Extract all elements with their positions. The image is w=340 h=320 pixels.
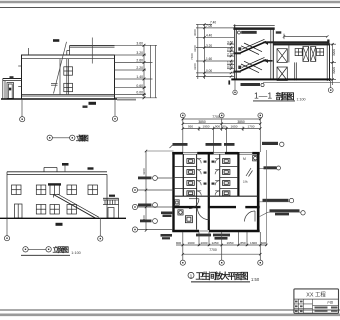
elevation-2 parapet bbox=[7, 172, 107, 175]
section left rotated dim text bbox=[190, 29, 197, 70]
svg-text:0.00: 0.00 bbox=[136, 91, 143, 95]
plan right extension vertical bbox=[265, 150, 267, 246]
svg-text:3200: 3200 bbox=[332, 49, 336, 56]
section interior wall upper bbox=[288, 45, 290, 62]
elevation-1 ground extension gray bbox=[117, 99, 136, 101]
plan right toilets bbox=[223, 159, 230, 196]
plan left axis leaders bbox=[138, 190, 174, 230]
svg-text:1:100: 1:100 bbox=[71, 251, 81, 255]
plan right-stall wall bbox=[237, 152, 239, 196]
plan corner basin top-right bbox=[253, 156, 258, 161]
plan axis circle bottom 2 bbox=[219, 260, 224, 265]
plan annotation top-mid bbox=[206, 143, 222, 146]
section roof level mark bbox=[276, 31, 282, 33]
plan axis circle top 3 bbox=[258, 113, 263, 118]
plan corridor marks bbox=[204, 161, 215, 185]
elevation-2 annex door bbox=[108, 208, 114, 219]
section ground extension line right bbox=[263, 82, 340, 84]
section roof parapet right bbox=[327, 40, 329, 44]
section footing mark bbox=[228, 80, 230, 84]
svg-text:卫生间放大平面图: 卫生间放大平面图 bbox=[196, 271, 249, 281]
svg-text:1: 1 bbox=[190, 273, 193, 279]
plan left annotation circle 3 bbox=[153, 219, 158, 224]
elevation-2 apron label bbox=[56, 223, 63, 226]
svg-text:1950: 1950 bbox=[203, 125, 210, 129]
svg-text:1250: 1250 bbox=[212, 241, 219, 245]
elevation-1 window upper bbox=[64, 67, 73, 75]
elevation-1 axis circle A bbox=[20, 117, 25, 122]
titleblock right small rows bbox=[315, 307, 338, 312]
plan big room slope marks bbox=[246, 168, 253, 177]
plan top extension verticals bbox=[183, 118, 260, 152]
section right dim stack vertical bbox=[332, 44, 334, 86]
section upper door-X 2 bbox=[311, 47, 316, 62]
elevation-1 window lower bbox=[64, 83, 73, 91]
plan title circled number bbox=[188, 272, 194, 278]
plan right annotation 2 leader bbox=[260, 212, 268, 216]
section axis line A bbox=[234, 80, 236, 90]
svg-text:2.80: 2.80 bbox=[227, 47, 233, 51]
svg-text:1650: 1650 bbox=[231, 125, 238, 129]
elevation-1 level-mark label bbox=[53, 39, 59, 42]
elevation-1 drainpipe bbox=[67, 59, 69, 95]
svg-text:2.20: 2.20 bbox=[227, 52, 233, 56]
plan middle partition wall bbox=[208, 152, 210, 230]
plan top windows (double line) bbox=[183, 152, 252, 154]
plan annotation right-wall tile leader bbox=[258, 168, 263, 170]
svg-text:0.00: 0.00 bbox=[206, 69, 212, 73]
section left dimension verticals bbox=[198, 24, 205, 79]
elevation-2 penthouse bump bbox=[44, 168, 57, 172]
plan top dim line mid bbox=[183, 123, 260, 125]
plan right annotation 1 bbox=[263, 199, 289, 202]
elevation-2 window row2 w4 bbox=[67, 205, 77, 215]
plan annotation right-wall tile bbox=[264, 166, 277, 169]
plan left annotation circle 1 bbox=[153, 176, 158, 181]
plan left rotated dim texts bbox=[142, 168, 146, 222]
plan right annotation 2 bbox=[270, 209, 300, 215]
elevation-1 dimension texts bbox=[136, 42, 143, 95]
plan axis circle bottom 1 bbox=[180, 260, 185, 265]
elevation-2 axis line A bbox=[6, 218, 8, 235]
titleblock cell marks bbox=[295, 301, 303, 312]
section axis circle B bbox=[328, 88, 333, 93]
elevation-1 penthouse roof bbox=[67, 46, 115, 55]
border frame bottom thin bbox=[0, 309, 340, 311]
plan left axis circle 1 bbox=[132, 187, 137, 192]
section lower mid landing bbox=[233, 71, 240, 73]
section main roof slab bbox=[273, 43, 329, 45]
section ceiling annotation circle bbox=[238, 31, 241, 34]
svg-text:1.40: 1.40 bbox=[136, 75, 143, 79]
plan right stall dividers bbox=[220, 167, 238, 189]
elevation-1 apron label bbox=[89, 102, 97, 105]
section ceiling annotation bbox=[241, 31, 257, 34]
plan left stall doors bbox=[197, 159, 202, 196]
svg-text:7700: 7700 bbox=[212, 115, 220, 119]
plan left stall dividers bbox=[175, 167, 197, 189]
svg-text:2.60: 2.60 bbox=[136, 59, 143, 63]
svg-text:1.60: 1.60 bbox=[206, 57, 212, 61]
svg-text:3.20: 3.20 bbox=[206, 44, 212, 48]
plan left axis circle 3 bbox=[132, 227, 137, 232]
elevation-2 title underline bbox=[21, 254, 70, 256]
plan bottom extension verticals bbox=[183, 232, 260, 260]
elevation-1 door canopy bbox=[51, 84, 58, 86]
elevation-2 window row1 w5 bbox=[88, 185, 98, 195]
plan zone-B door arc bbox=[198, 208, 210, 220]
section right wall bbox=[327, 43, 329, 81]
plan stall front wall right room bbox=[219, 155, 221, 197]
svg-text:3200: 3200 bbox=[193, 63, 197, 70]
border frame bottom thick bbox=[0, 313, 340, 316]
section stair tower left wall bbox=[235, 24, 237, 79]
border frame top thick bbox=[0, 1, 340, 4]
plan top dim texts detail bbox=[188, 125, 255, 129]
elevation-1 small label bbox=[83, 106, 88, 108]
titleblock row lines bbox=[294, 304, 339, 309]
section left extension lines bbox=[196, 24, 234, 76]
section roof dim line bbox=[283, 34, 329, 40]
elevation-1 axis line A bbox=[21, 99, 23, 117]
elevation-2 axis line B bbox=[99, 218, 101, 236]
plan annotation top-mid2 bbox=[224, 143, 235, 146]
section upper mid landing bbox=[233, 52, 240, 54]
elevation-2 roof leader bbox=[64, 166, 66, 172]
plan axis circle bottom 3 bbox=[258, 260, 263, 265]
plan left wall bbox=[172, 152, 174, 232]
section lower flight bbox=[240, 57, 266, 72]
plan axis circle top 1 bbox=[180, 113, 185, 118]
svg-text:立面图: 立面图 bbox=[53, 245, 70, 254]
plan stall front wall left room bbox=[196, 155, 198, 197]
plan top dim line detail bbox=[183, 128, 260, 130]
plan bottom-left outside blob bbox=[161, 234, 173, 239]
elevation-2 axis circle B bbox=[98, 236, 103, 241]
plan right annotation 2 circle bbox=[301, 211, 305, 215]
section annotation circle bbox=[261, 83, 264, 86]
svg-text:M: M bbox=[243, 157, 246, 161]
titleblock project row divider bbox=[294, 298, 339, 300]
section right extension lines bbox=[330, 44, 337, 79]
section riser dim marks bbox=[238, 47, 241, 69]
section tower roof slab bbox=[233, 27, 274, 30]
plan top dim ticks bbox=[182, 118, 262, 130]
svg-text:1650: 1650 bbox=[227, 241, 234, 245]
svg-text:XX 工程: XX 工程 bbox=[306, 291, 326, 299]
svg-text:1300: 1300 bbox=[250, 241, 257, 245]
elevation-1 dimension extension lines bbox=[115, 45, 158, 98]
plan axis circle top 2 bbox=[219, 113, 224, 118]
elevation-2 title bbox=[23, 247, 52, 252]
section left level texts bbox=[206, 21, 233, 74]
section axis line B bbox=[330, 81, 332, 88]
elevation-2 window row1 w4 bbox=[67, 185, 77, 195]
plan right annotation 1 circle bbox=[289, 198, 293, 202]
elevation-2 ground line bbox=[0, 217, 126, 219]
section lower flight cut triangle bbox=[263, 60, 268, 64]
plan left annotation 2 bbox=[138, 204, 152, 207]
elevation-2 right annex railing bbox=[103, 198, 119, 218]
section upper flight bbox=[240, 39, 266, 54]
plan left toilets bbox=[187, 159, 194, 196]
section upper door bbox=[277, 49, 287, 63]
elevation-2 window row1 w1 bbox=[12, 185, 22, 195]
elevation-1 roof vent pipe bbox=[28, 48, 30, 55]
svg-text:4.40: 4.40 bbox=[206, 34, 212, 38]
plan left axis circle 2 bbox=[132, 204, 137, 209]
svg-text:7.00: 7.00 bbox=[206, 24, 212, 28]
elevation-2 window row1 w2 bbox=[36, 185, 46, 195]
section upper window 2 bbox=[317, 49, 324, 56]
elevation-2 roof level label bbox=[62, 163, 69, 166]
svg-text:3850: 3850 bbox=[198, 120, 206, 124]
section tower parapet line bbox=[233, 25, 274, 27]
svg-text:950: 950 bbox=[188, 125, 193, 129]
plan lower basin circle bbox=[178, 210, 183, 215]
svg-text:7700: 7700 bbox=[209, 248, 217, 252]
section ground slab bbox=[231, 78, 331, 80]
plan top wall band bbox=[172, 152, 259, 155]
svg-text:1—1: 1—1 bbox=[254, 91, 272, 101]
elevation-2 window row2 w2 bbox=[36, 205, 46, 215]
elevation-1 wall face line bbox=[59, 59, 61, 95]
svg-text:4200: 4200 bbox=[142, 168, 146, 175]
svg-text:3000: 3000 bbox=[193, 29, 197, 36]
elevation-1 title bbox=[47, 135, 75, 140]
plan zone-A door arc bbox=[189, 199, 199, 209]
section left dimension ticks bbox=[203, 23, 232, 77]
section right rotated texts bbox=[332, 49, 336, 74]
svg-text:3200: 3200 bbox=[193, 45, 197, 52]
plan mid wall W2 bbox=[172, 206, 259, 208]
elevation-2 wall outline bbox=[7, 172, 107, 218]
section outdoor-level annotation bbox=[241, 83, 261, 86]
plan bottom opening threshold bbox=[199, 230, 209, 232]
elevation-2 parapet label bbox=[88, 167, 94, 169]
section title underline bbox=[253, 100, 295, 102]
plan lower small partition bbox=[196, 196, 198, 229]
plan right room door arc bbox=[245, 211, 256, 222]
elevation-1 leader diagonal bbox=[54, 42, 67, 94]
plan bottom wall bbox=[172, 230, 259, 233]
plan bottom dim ticks bbox=[182, 244, 268, 246]
svg-text:户厕: 户厕 bbox=[327, 299, 333, 304]
svg-text:1%: 1% bbox=[243, 180, 248, 184]
elevation-1 leader vertical bbox=[91, 38, 93, 64]
titleblock verticals bbox=[299, 299, 313, 313]
svg-text:1600: 1600 bbox=[188, 241, 195, 245]
plan bottom annotation 2 bbox=[213, 234, 230, 240]
plan stall-zone bottom wall W1 bbox=[175, 195, 258, 197]
elevation-1 annex roof vent bbox=[10, 76, 14, 78]
section upper door-X 1 bbox=[303, 47, 309, 62]
plan right wall bbox=[257, 152, 260, 232]
section upper window 1 bbox=[295, 49, 302, 56]
plan zone-A fixture bbox=[175, 200, 180, 205]
plan annotation top-right leader circle bbox=[280, 142, 284, 146]
svg-text:3200: 3200 bbox=[332, 67, 336, 74]
plan top dim texts mid bbox=[198, 120, 245, 124]
section axis circle A bbox=[233, 90, 237, 94]
elevation-1 wall ledge marks bbox=[18, 66, 21, 86]
plan left annotation 1 bbox=[138, 177, 152, 180]
plan left dim vertical bbox=[145, 151, 147, 230]
elevation-2 window row2 w3 bbox=[50, 205, 59, 215]
plan annotation top-right bbox=[262, 142, 278, 145]
plan bottom dim texts bbox=[176, 241, 266, 245]
svg-text:900: 900 bbox=[215, 125, 220, 129]
plan lower squat pan bbox=[185, 216, 192, 223]
elevation-2 balcony slab bbox=[48, 183, 61, 185]
plan left leader 1 bbox=[157, 177, 174, 179]
elevation-1 dimension vertical lines bbox=[144, 45, 156, 98]
section floor1 slab right bbox=[265, 60, 273, 62]
plan left annotation circle 2 bbox=[153, 203, 158, 208]
svg-text:3850: 3850 bbox=[237, 120, 245, 124]
plan right annotation 1 leader bbox=[260, 201, 290, 203]
svg-text:0.60: 0.60 bbox=[227, 65, 233, 69]
plan right stall doors bbox=[215, 159, 220, 196]
plan bottom annotation 1 bbox=[196, 234, 211, 237]
svg-text:1000: 1000 bbox=[201, 241, 208, 245]
elevation-2 balcony door bbox=[50, 184, 59, 195]
plan left outside annotation bbox=[161, 212, 173, 218]
plan stall back wall left room bbox=[182, 155, 184, 197]
svg-text:1:50: 1:50 bbox=[251, 277, 260, 282]
plan annotation right-wall tile circle bbox=[277, 166, 281, 170]
svg-text:600: 600 bbox=[261, 241, 266, 245]
section interior wall lower bbox=[295, 62, 297, 80]
plan annotation top-left leader bbox=[170, 145, 173, 148]
elevation-2 axis circle A bbox=[4, 236, 9, 241]
svg-text:3.20: 3.20 bbox=[136, 51, 143, 55]
svg-text:0.60: 0.60 bbox=[136, 84, 143, 88]
svg-text:7400: 7400 bbox=[190, 53, 194, 60]
section right dim ticks bbox=[331, 43, 333, 81]
plan top dim line overall bbox=[183, 118, 260, 120]
svg-text:立面图: 立面图 bbox=[76, 134, 89, 143]
elevation-1 annex door bbox=[7, 83, 14, 99]
section upper flight cut triangle bbox=[263, 42, 268, 46]
section tower right wall bbox=[271, 28, 274, 79]
plan left dim ticks bbox=[145, 150, 147, 232]
svg-text:3.60: 3.60 bbox=[136, 42, 143, 46]
border frame top thin bbox=[0, 7, 340, 9]
plan bottom dim line detail bbox=[176, 244, 266, 246]
elevation-1 axis circle B bbox=[112, 116, 117, 121]
section lower door bbox=[277, 67, 287, 81]
elevation-2 door lower bbox=[15, 204, 23, 218]
plan title underline bbox=[191, 281, 250, 283]
elevation-1 left annex bbox=[3, 79, 22, 99]
svg-text:2.20: 2.20 bbox=[136, 66, 143, 70]
plan left dim extension top bbox=[146, 150, 174, 152]
plan annotation top-left bbox=[173, 143, 188, 146]
svg-text:1:100: 1:100 bbox=[297, 97, 306, 101]
svg-text:剖面图: 剖面图 bbox=[276, 91, 295, 101]
svg-text:3.60: 3.60 bbox=[227, 40, 233, 44]
svg-text:90: 90 bbox=[222, 125, 226, 129]
section floor2 slab bbox=[265, 41, 329, 43]
elevation-1 axis line B bbox=[114, 99, 116, 116]
svg-text:900: 900 bbox=[176, 241, 181, 245]
titleblock right texts bbox=[327, 299, 333, 304]
svg-text:1700: 1700 bbox=[248, 125, 255, 129]
elevation-1 main wall outline bbox=[22, 55, 115, 99]
titleblock outer bbox=[294, 289, 339, 313]
elevation-2 annex level mark bbox=[109, 195, 115, 197]
elevation-1 ground line bbox=[1, 98, 117, 100]
elevation-1 dimension ticks bbox=[143, 44, 146, 99]
axis circle glyph dots bbox=[6, 89, 331, 263]
plan left annotation 3 bbox=[140, 220, 152, 223]
plan bottom overall ticks bbox=[182, 253, 262, 255]
elevation-2 external stair stringer bbox=[54, 194, 99, 218]
svg-text:850: 850 bbox=[240, 241, 245, 245]
plan bottom dim line overall bbox=[183, 253, 260, 255]
